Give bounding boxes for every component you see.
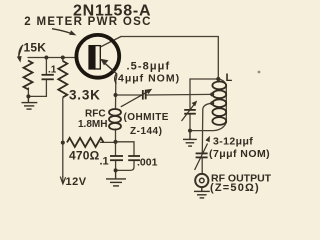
wire cap C1 top lead [45,58,47,75]
transistor Q1 emitter arrow [100,59,117,74]
wire L top to trimmer C3 [190,78,218,80]
wire cap C1 bottom lead and bottom link [28,80,46,97]
svg-text:.1: .1 [100,156,109,168]
resistor R2 3.3K [58,61,67,97]
trimmer capacitor C2 arrow [121,89,152,107]
wire 3.3K bottom to 470 junction to 12V arrow [62,98,64,177]
connector J1 RF output jack [195,174,208,187]
wire emitter feed to trimmer C2 [116,94,143,96]
wire top rail drop to L [217,37,219,80]
svg-text:L: L [226,72,233,84]
trimmer capacitor C3 plates [184,110,196,114]
wire base rail [28,57,78,59]
wire .1 cap bottom lead [115,160,117,170]
wire trimmer C4 to jack [201,158,203,174]
svg-text:(7μμf NOM): (7μμf NOM) [209,148,270,160]
svg-text:(OHMITE: (OHMITE [124,112,169,123]
wire .1 cap top lead [115,142,117,156]
svg-text:Z-144): Z-144) [130,126,162,137]
svg-text:470Ω: 470Ω [69,149,100,163]
node bypass ground [114,168,118,172]
trimmer capacitor C4 3-12uuf plates [196,153,208,157]
wire coil tap2 down to output trimmer C4 [202,103,212,153]
capacitor C6 .001 plates [128,156,140,160]
svg-text:RFC: RFC [85,109,106,120]
node coil tap 1 [210,92,214,96]
capacitor C1 .1 plates [42,75,54,80]
svg-text:12V: 12V [66,176,87,188]
wire trimmer C2 to coil tap [146,93,213,96]
ground G4 (jack) [194,187,210,198]
wire 15K bottom to junction [27,88,29,96]
wire 3.3K top lead [62,58,64,62]
trimmer capacitor C3 arrow [182,101,198,121]
wire collector diagonal [100,37,121,48]
transistor Q1 circle [76,35,119,78]
resistor R1 15K [24,61,33,90]
trimmer capacitor C4 arrow [195,136,210,170]
svg-text:(Z=50Ω): (Z=50Ω) [210,182,260,194]
wire 470 right lead to RFC junction [101,141,116,143]
node tank ground [188,129,192,133]
transistor Q1 base bar open [95,46,100,69]
svg-text:3.3K: 3.3K [69,87,101,102]
supply arrow 12V [60,176,65,184]
wire trimmer C3 top lead [189,79,191,109]
svg-text:15K: 15K [24,41,47,55]
node base-rail 3.3K [61,56,65,60]
svg-text:(4μμf NOM): (4μμf NOM) [114,73,181,85]
pointer arrow to transistor [52,29,76,36]
node L top [216,77,220,81]
trimmer capacitor C2 .5-8uuf plates [143,90,146,100]
wire .001 bottom lead [116,160,134,170]
ground G1 (15K) [22,96,38,109]
wire RFC bottom lead [115,129,117,142]
node coil tap 2 [210,101,214,105]
paper background [0,0,290,204]
inductor L tank coil [212,82,226,125]
svg-text:2 METER PWR OSC: 2 METER PWR OSC [24,16,151,28]
ground G2 (bypass) [106,170,126,186]
wire bypass rail right + .001 top lead [116,142,135,156]
node 470 left [61,141,65,145]
node emitter junction [114,93,118,97]
RF choke RFC 1.8MH coil [109,109,121,130]
ground G3 (tank) [183,131,197,147]
node RFC bottom [114,140,118,144]
pointer arrow 15K [17,45,23,63]
svg-text:.1: .1 [48,65,57,76]
wire coil right return [218,79,226,123]
transistor Q1 base bar filled [88,45,95,70]
svg-text:.001: .001 [137,157,158,169]
wire coil bottom to ground junction [190,123,226,131]
svg-text:3-12μμf: 3-12μμf [213,135,253,147]
wire emitter vertical to RFC [116,74,117,108]
svg-text:.5-8μμf: .5-8μμf [127,61,171,73]
svg-text:1.8MH: 1.8MH [78,119,107,130]
wire trimmer C3 bottom lead [189,114,191,131]
speck [258,71,261,74]
node 15K bottom [26,94,30,98]
node base-rail C1 [44,56,48,60]
resistor R3 470 ohm [67,138,103,147]
capacitor C5 .1 bypass plates [110,156,123,160]
wire top rail [121,36,218,38]
